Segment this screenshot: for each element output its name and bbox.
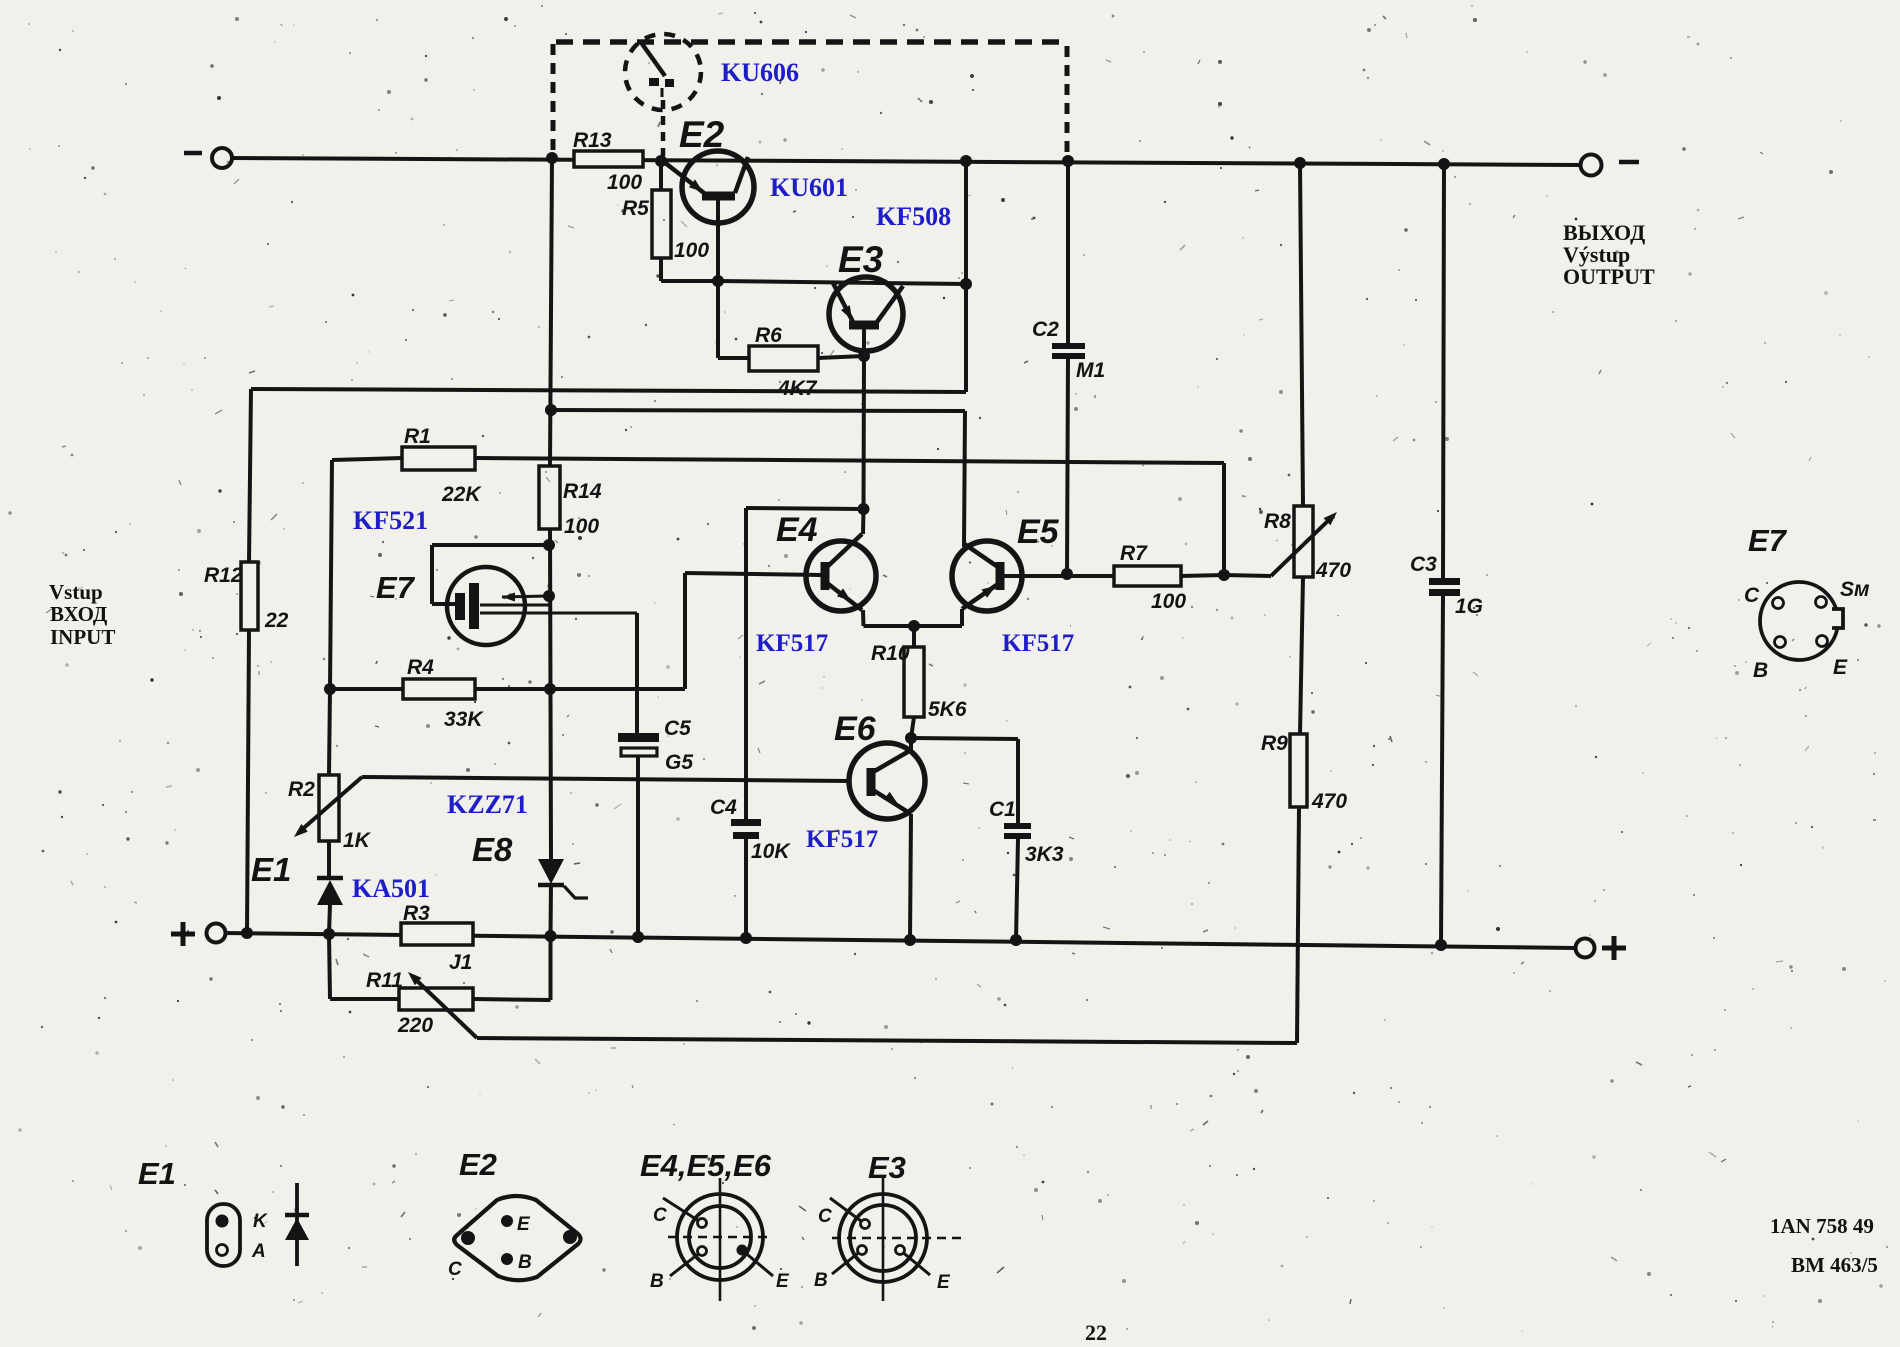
svg-text:R10: R10: [871, 642, 910, 665]
wire E2 emitter to E3 node: [716, 199, 720, 281]
svg-text:E3: E3: [868, 1150, 906, 1185]
svg-text:BM 463/5: BM 463/5: [1791, 1253, 1878, 1277]
svg-text:K: K: [253, 1211, 268, 1232]
capacitor C3: [1429, 578, 1460, 585]
svg-text:E1: E1: [138, 1156, 176, 1191]
svg-text:R5: R5: [622, 197, 649, 220]
wire R1 left lead: [332, 458, 402, 460]
svg-text:E5: E5: [1017, 513, 1060, 551]
resistor R14: [539, 466, 560, 529]
svg-text:R12: R12: [204, 564, 243, 587]
transistor E3 KF508: [829, 277, 903, 351]
svg-text:E7: E7: [1748, 523, 1788, 558]
svg-text:C: C: [818, 1206, 832, 1227]
svg-text:R7: R7: [1120, 542, 1148, 565]
transistor KU606 dashed circle: [625, 34, 701, 110]
wire E7 loop: [432, 543, 549, 547]
potentiometer R11: [399, 988, 473, 1010]
wire C3 vertical: [1443, 164, 1444, 578]
svg-text:OUTPUT: OUTPUT: [1563, 264, 1655, 289]
svg-text:22: 22: [264, 609, 289, 632]
svg-text:E3: E3: [838, 239, 884, 280]
terminal plus left: [207, 924, 226, 943]
svg-text:R8: R8: [1264, 510, 1291, 533]
svg-text:M1: M1: [1076, 359, 1105, 382]
svg-text:R2: R2: [288, 778, 315, 801]
resistor R1: [402, 447, 475, 470]
svg-text:E: E: [776, 1271, 790, 1292]
transistor E2 KU601: [682, 151, 754, 223]
svg-text:R11: R11: [366, 969, 403, 992]
svg-text:B: B: [1753, 659, 1768, 682]
svg-text:KU601: KU601: [770, 173, 848, 202]
capacitor C1: [1004, 823, 1031, 829]
svg-text:B: B: [650, 1271, 664, 1292]
svg-text:KF508: KF508: [876, 202, 951, 231]
resistor R12: [241, 562, 258, 630]
svg-text:R3: R3: [403, 902, 430, 925]
resistor R7: [1114, 566, 1181, 586]
node dots: [546, 152, 558, 164]
wire R1 to output node: [475, 458, 1224, 463]
wire R6 branch: [716, 281, 720, 358]
svg-text:220: 220: [397, 1014, 433, 1037]
resistor R3: [401, 923, 473, 945]
svg-text:E4: E4: [776, 511, 818, 549]
svg-text:470: 470: [1311, 790, 1347, 813]
resistor R5: [652, 190, 671, 258]
lamp E7 KF521: [447, 567, 525, 645]
svg-text:470: 470: [1315, 559, 1351, 582]
svg-text:R4: R4: [407, 656, 434, 679]
svg-text:E: E: [937, 1272, 951, 1293]
wire feedback line node A: [251, 389, 966, 392]
potentiometer R8: [1294, 506, 1313, 577]
transistor E5 KF517: [952, 541, 1022, 611]
wire R2 branch: [329, 689, 330, 775]
transistor E6 KF517: [849, 743, 925, 819]
wire R5 leads: [659, 161, 663, 190]
svg-text:E2: E2: [679, 114, 725, 155]
svg-text:1G: 1G: [1455, 595, 1483, 618]
wire C2 vertical: [1066, 161, 1070, 344]
svg-text:E4,E5,E6: E4,E5,E6: [640, 1148, 772, 1183]
wire top minus rail: [231, 158, 1581, 165]
wire R12 bottom: [247, 630, 249, 933]
potentiometer R2: [319, 775, 339, 841]
svg-text:J1: J1: [449, 951, 472, 974]
transistor E4 KF517: [806, 541, 876, 611]
svg-text:KF517: KF517: [806, 826, 878, 853]
svg-text:3K3: 3K3: [1025, 843, 1064, 866]
svg-text:22: 22: [1085, 1320, 1107, 1342]
wire R10 leads: [864, 624, 915, 628]
svg-text:R6: R6: [755, 324, 782, 347]
svg-text:KZZ71: KZZ71: [447, 790, 528, 819]
svg-text:C: C: [653, 1205, 667, 1226]
wire E3 emitter down to E4 collector: [862, 356, 867, 509]
wire dashed KU606 net: [551, 44, 556, 152]
svg-text:A: A: [251, 1241, 266, 1262]
svg-text:C4: C4: [710, 796, 737, 819]
terminal plus right: [1576, 939, 1595, 958]
svg-text:10K: 10K: [751, 840, 791, 863]
svg-text:B: B: [518, 1252, 532, 1273]
svg-text:E: E: [517, 1214, 531, 1235]
resistor R9: [1290, 734, 1307, 807]
svg-text:G5: G5: [665, 751, 693, 774]
wire bottom plus rail: [225, 933, 1576, 948]
capacitor C4: [731, 819, 761, 826]
resistor R6: [749, 346, 818, 371]
svg-text:ВХОД: ВХОД: [50, 602, 108, 626]
wire R2 wiper to E6 base rail: [362, 777, 849, 781]
wire center spine: [550, 158, 552, 466]
wire R8 chain vertical: [1300, 163, 1303, 506]
svg-text:R1: R1: [404, 425, 431, 448]
wire C5 branch: [635, 613, 639, 734]
svg-text:E: E: [1833, 656, 1848, 679]
resistor R10: [904, 647, 924, 717]
wire E6 emitter down: [910, 814, 911, 940]
svg-text:C2: C2: [1032, 318, 1059, 341]
svg-text:B: B: [814, 1270, 828, 1291]
wire E4 collector to C4: [746, 508, 864, 509]
svg-text:R13: R13: [573, 129, 612, 152]
svg-text:E1: E1: [251, 851, 291, 888]
svg-text:C: C: [1744, 584, 1760, 607]
svg-text:C: C: [448, 1259, 462, 1280]
zener diode E8 KZZ71: [538, 859, 564, 884]
svg-text:R14: R14: [563, 480, 602, 503]
svg-text:4K7: 4K7: [777, 377, 818, 400]
resistor R13: [574, 151, 643, 167]
svg-text:KA501: KA501: [352, 874, 430, 903]
svg-text:Vstup: Vstup: [49, 580, 103, 604]
wire R4 leads: [330, 687, 403, 691]
svg-text:KF517: KF517: [756, 630, 828, 657]
wire E7 electrode lines: [502, 596, 548, 597]
svg-text:100: 100: [607, 171, 642, 194]
svg-text:100: 100: [1151, 590, 1186, 613]
wire E6 collector node to C1: [911, 738, 1018, 739]
terminal minus left: [212, 148, 232, 168]
wire C4 bottom: [744, 839, 748, 938]
svg-text:KF521: KF521: [353, 506, 428, 535]
svg-text:KF517: KF517: [1002, 630, 1074, 657]
svg-text:Sᴍ: Sᴍ: [1840, 578, 1870, 601]
svg-text:22K: 22K: [441, 483, 482, 506]
wire E5 collector to R7: [1003, 574, 1114, 578]
wire C1 bottom: [1016, 839, 1018, 940]
capacitor C5: [618, 733, 659, 742]
terminal minus right: [1581, 155, 1602, 176]
svg-text:C3: C3: [1410, 553, 1437, 576]
capacitor C2: [1052, 343, 1085, 349]
diode E1 KA501: [317, 876, 343, 881]
wire E4 base path: [550, 687, 685, 691]
svg-text:1K: 1K: [343, 829, 372, 852]
resistor R4: [403, 679, 475, 699]
wire R11 to R9 bottom line: [477, 1038, 1297, 1043]
wire E5 base line: [551, 410, 965, 411]
svg-text:E6: E6: [834, 710, 877, 748]
svg-text:100: 100: [674, 239, 709, 262]
svg-text:C1: C1: [989, 798, 1016, 821]
svg-text:INPUT: INPUT: [50, 625, 115, 649]
svg-text:E2: E2: [459, 1147, 497, 1182]
svg-text:E8: E8: [472, 831, 513, 868]
svg-text:5K6: 5K6: [928, 698, 967, 721]
svg-text:R9: R9: [1261, 732, 1288, 755]
svg-text:100: 100: [564, 515, 599, 538]
svg-text:33K: 33K: [444, 708, 484, 731]
svg-text:1AN 758 49: 1AN 758 49: [1770, 1214, 1874, 1238]
svg-text:KU606: KU606: [721, 58, 799, 87]
